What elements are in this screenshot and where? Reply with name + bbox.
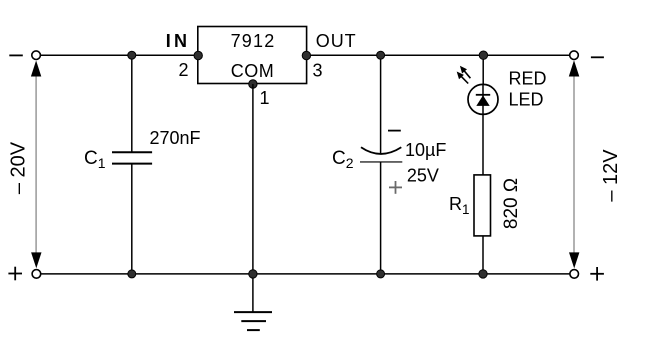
terminal output negative (top-right open circle) xyxy=(570,51,579,60)
ground xyxy=(234,312,272,330)
polarity minus sign top-left xyxy=(9,54,22,56)
LED light emission arrow 2 xyxy=(457,72,469,84)
junction dot C1 bottom xyxy=(128,270,136,278)
junction dot C2 bottom xyxy=(377,270,385,278)
regulator U1 7912 body xyxy=(198,27,307,84)
wire C1 branch bottom xyxy=(131,164,133,274)
svg-text:10µF: 10µF xyxy=(405,140,446,160)
voltage measurement arrow left (-20V) xyxy=(31,61,42,269)
svg-text:– 12V: – 12V xyxy=(600,149,622,202)
svg-text:3: 3 xyxy=(313,60,323,80)
junction dot R1 bottom xyxy=(479,270,487,278)
wire LED branch top xyxy=(482,55,484,84)
wire COM branch (regulator to ground) xyxy=(252,84,254,312)
LED light emission arrow 1 xyxy=(460,66,471,78)
polarity plus sign bottom-right xyxy=(590,267,604,281)
terminal input positive (bottom-left open circle) xyxy=(32,270,41,279)
svg-text:– 20V: – 20V xyxy=(7,141,29,194)
svg-text:7912: 7912 xyxy=(231,31,276,51)
LED triangle (anode, pointing up) xyxy=(476,95,489,106)
wire C2 branch bottom xyxy=(380,162,382,274)
svg-text:LED: LED xyxy=(509,90,544,110)
svg-text:820 Ω: 820 Ω xyxy=(501,178,522,229)
wire C2 branch top xyxy=(380,55,382,154)
svg-text:OUT: OUT xyxy=(316,31,357,51)
wire top rail left (input terminal to IN pin) xyxy=(40,54,197,56)
voltage measurement arrow right (-12V) xyxy=(569,60,580,268)
terminal output positive (bottom-right open circle) xyxy=(570,270,579,279)
terminal input negative (top-left open circle) xyxy=(32,51,41,60)
junction dot C1 top xyxy=(128,51,136,59)
capacitor C2 curved plate (negative) xyxy=(361,147,401,154)
svg-text:2: 2 xyxy=(179,60,189,80)
LED circle xyxy=(468,84,498,114)
svg-text:25V: 25V xyxy=(407,166,439,186)
wire bottom rail xyxy=(41,273,570,275)
C2 polarity plus xyxy=(389,181,402,194)
polarity minus sign top-right xyxy=(591,56,604,58)
junction dot COM bottom rail xyxy=(249,270,257,278)
C2 polarity minus xyxy=(388,130,401,132)
capacitor C1 plates xyxy=(112,152,152,163)
pin dot COM (pin 1) xyxy=(249,80,257,88)
wire C1 branch top xyxy=(131,55,133,152)
wire LED to resistor xyxy=(482,114,484,174)
pin dot OUT (pin 3) xyxy=(302,51,310,59)
polarity plus sign bottom-left xyxy=(8,267,22,281)
junction dot LED top xyxy=(479,51,487,59)
resistor R1 body xyxy=(474,175,491,236)
LED internal wire xyxy=(482,85,484,115)
LED cathode bar xyxy=(476,94,490,96)
svg-text:IN: IN xyxy=(166,31,190,51)
wire top rail right (OUT pin to output terminal) xyxy=(307,54,570,56)
capacitor C2 straight plate (positive) xyxy=(360,161,402,163)
svg-text:270nF: 270nF xyxy=(150,128,201,148)
junction dot C2 top xyxy=(377,51,385,59)
pin dot IN (pin 2) xyxy=(194,51,202,59)
svg-text:1: 1 xyxy=(260,88,270,108)
svg-text:RED: RED xyxy=(509,68,547,88)
wire resistor to bottom rail xyxy=(482,236,484,274)
svg-text:COM: COM xyxy=(231,61,275,81)
